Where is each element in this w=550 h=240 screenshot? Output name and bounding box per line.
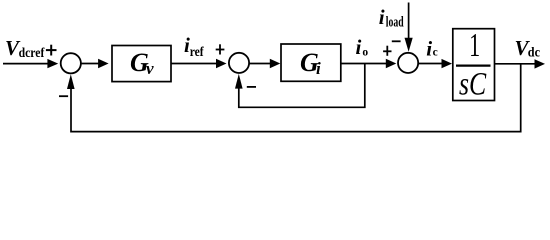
svg-text:dc: dc [528,46,540,61]
svg-text:i: i [379,5,385,29]
svg-text:sC: sC [459,66,486,102]
svg-text:i: i [426,37,432,61]
svg-text:i: i [356,35,362,59]
svg-text:ref: ref [190,45,204,60]
svg-text:1: 1 [469,28,480,65]
svg-text:dcref: dcref [19,46,45,61]
svg-text:o: o [362,47,368,59]
svg-text:v: v [146,59,154,78]
svg-text:i: i [316,59,321,78]
svg-text:load: load [386,15,404,31]
svg-text:c: c [433,47,438,59]
